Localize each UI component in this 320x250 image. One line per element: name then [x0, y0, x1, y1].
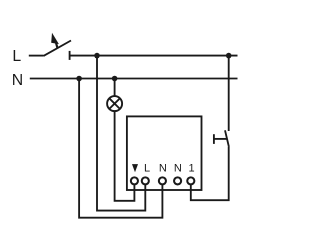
- svg-text:1: 1: [189, 163, 195, 175]
- wire L drop to terminal L: [97, 56, 145, 211]
- switch S1 fixed contact tick: [69, 51, 71, 60]
- junction dot L-A: [94, 53, 100, 59]
- pushbutton S2 actuator tick: [213, 134, 215, 144]
- pushbutton S2 actuator bar: [214, 138, 227, 140]
- lamp E1: [107, 96, 122, 111]
- junction dot N-A: [76, 76, 82, 82]
- terminal label arrow: [132, 164, 138, 172]
- svg-text:N: N: [12, 72, 23, 89]
- terminal circle 1: [187, 177, 194, 184]
- junction dot L-B: [226, 53, 232, 59]
- terminal circle N1: [159, 177, 166, 184]
- wire switched line to pushbutton: [228, 56, 230, 131]
- pushbutton S2 blade: [225, 130, 229, 147]
- wire N drop to terminal N: [79, 79, 162, 218]
- wire lamp to terminal output: [115, 111, 135, 201]
- junction dot N-B: [112, 76, 118, 82]
- terminal circle L: [142, 177, 149, 184]
- svg-text:N: N: [159, 163, 167, 175]
- svg-text:L: L: [12, 48, 21, 65]
- lamp E1 cross: [109, 98, 120, 109]
- switch S1 blade: [44, 41, 72, 56]
- terminal circle N2: [174, 177, 181, 184]
- terminal circle output: [131, 177, 138, 184]
- wire pushbutton to terminal 1: [191, 147, 229, 200]
- svg-text:N: N: [174, 163, 182, 175]
- device box U1: [127, 116, 202, 190]
- switch S1 actuation arrow: [51, 33, 59, 49]
- wire lamp top: [114, 79, 116, 97]
- wire L feed: [29, 55, 44, 57]
- svg-text:L: L: [144, 163, 150, 175]
- wire L bus: [70, 55, 238, 57]
- wire N bus: [30, 78, 238, 80]
